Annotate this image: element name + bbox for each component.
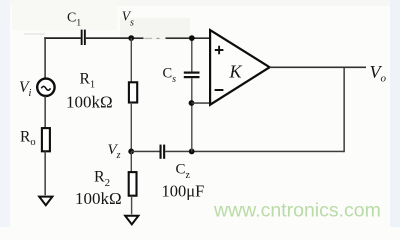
wire Vi to Ro	[44, 96, 46, 128]
wire R2 to ground	[131, 196, 132, 215]
resistor Ro	[42, 128, 50, 151]
node Vs	[128, 35, 134, 41]
node inverting input junction	[189, 100, 195, 106]
wire Vs to op-amp + input (degraded section)	[131, 37, 210, 39]
wire Cs bottom to feedback node	[191, 78, 192, 151]
wire Ro to ground	[44, 151, 46, 195]
svg-text:100kΩ: 100kΩ	[66, 93, 113, 112]
resistor R2	[129, 172, 137, 196]
wire top-left horizontal	[44, 37, 81, 39]
ground (below R2)	[125, 216, 138, 225]
wire op-amp output	[270, 67, 366, 69]
resistor R1	[129, 82, 137, 102]
wire top-left vertical to source	[44, 37, 46, 78]
wire feedback vertical	[343, 67, 345, 152]
wire Cz to feedback corner	[165, 151, 344, 153]
wire R2 top	[131, 151, 132, 172]
wire Vs down to R1	[131, 38, 132, 83]
wire C1 to node Vs	[86, 37, 132, 39]
ground (below Ro)	[39, 197, 52, 206]
capacitor Cs	[184, 72, 200, 79]
wire R1 down to node Vz	[131, 102, 132, 151]
node top junction	[189, 35, 195, 41]
svg-text:100kΩ: 100kΩ	[75, 189, 122, 208]
svg-text:K: K	[229, 62, 243, 82]
node Vz	[128, 149, 134, 155]
node feedback junction	[189, 149, 195, 155]
wire Vz to Cz	[131, 151, 159, 153]
capacitor Cz	[160, 145, 166, 159]
source Vi	[37, 79, 54, 96]
wire node to Cs top	[191, 38, 192, 71]
op-amp K	[210, 30, 270, 105]
capacitor C1	[81, 30, 86, 45]
svg-text:100μF: 100μF	[162, 182, 205, 201]
svg-text:www.cntronics.com: www.cntronics.com	[213, 200, 381, 222]
wire to inverting input	[192, 102, 210, 104]
